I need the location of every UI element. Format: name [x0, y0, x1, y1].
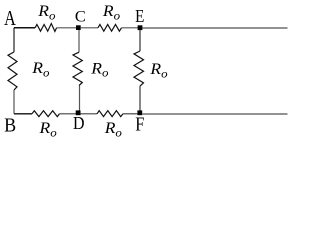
svg-text:Ro: Ro [102, 1, 120, 22]
wire node F to right edge [142, 113, 287, 115]
resistor R0 bottom-right (D-F) [97, 111, 123, 117]
svg-text:C: C [75, 7, 86, 26]
svg-text:D: D [73, 113, 85, 133]
wire R3 to node D [60, 113, 76, 115]
svg-text:Ro: Ro [37, 1, 55, 22]
node C junction dot [76, 25, 81, 30]
wire R2 to node E [122, 27, 138, 29]
svg-text:Ro: Ro [90, 59, 108, 80]
resistor R0 top-right (C-E) [98, 25, 122, 32]
svg-text:E: E [135, 6, 144, 26]
wire R1 to node C [57, 27, 76, 29]
wire A down to vertical resistor [13, 28, 15, 52]
svg-text:Ro: Ro [31, 58, 49, 79]
svg-text:Ro: Ro [38, 118, 56, 139]
wire node E to right edge [142, 27, 287, 29]
resistor R0 vertical left (A-B) [8, 52, 17, 90]
wire node C to R2 [81, 27, 98, 29]
wire C down to vertical resistor [78, 30, 80, 52]
resistor R0 vertical middle (C-D) [73, 52, 82, 85]
resistor R0 vertical right (E-F) [134, 51, 144, 86]
node D junction dot [76, 110, 81, 115]
svg-text:A: A [4, 7, 16, 31]
wire R4 to node F [123, 113, 137, 115]
resistor R0 bottom-left (B-D) [32, 111, 60, 117]
node F junction dot [137, 110, 142, 115]
resistor R0 top-left (A-C) [35, 24, 57, 32]
svg-text:F: F [135, 113, 144, 135]
wire vertical resistor down to B [13, 90, 15, 114]
wire E down to vertical resistor [139, 30, 141, 51]
svg-text:B: B [4, 115, 16, 137]
node E junction dot [138, 25, 143, 30]
wire vertical resistor down to F [139, 86, 141, 111]
svg-text:Ro: Ro [149, 60, 167, 81]
wire vertical resistor down to D [79, 86, 81, 112]
wire node D to R4 [81, 113, 98, 115]
wire top A to R1 [14, 27, 35, 29]
wire bottom B to R3 [14, 113, 32, 115]
svg-text:Ro: Ro [104, 118, 122, 139]
